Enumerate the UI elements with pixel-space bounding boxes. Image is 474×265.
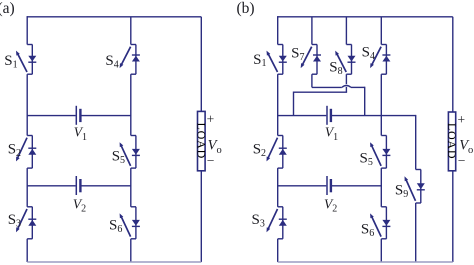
svg-text:V1: V1 bbox=[325, 125, 338, 143]
wire S7 horizontal left part (b) bbox=[312, 86, 342, 88]
wire S4 column top (b) bbox=[380, 17, 382, 45]
wire S7 wire drop to V1 row (b) bbox=[364, 87, 366, 116]
wire left column S2-S3 (a) bbox=[26, 168, 28, 207]
svg-text:+: + bbox=[207, 111, 215, 126]
wire load column bottom (b) bbox=[452, 171, 454, 262]
battery V2 (b) bbox=[327, 176, 331, 195]
load LOAD (b) bbox=[445, 112, 459, 171]
switch S4 (b) bbox=[370, 45, 390, 75]
wire V1 row left segment (a) bbox=[27, 115, 75, 117]
switch S3 (b) bbox=[267, 207, 287, 239]
svg-text:+: + bbox=[458, 112, 466, 127]
load LOAD (a) bbox=[194, 111, 208, 170]
wire S5-S6 column (b) bbox=[380, 168, 382, 207]
svg-text:S7: S7 bbox=[291, 46, 304, 63]
wire S8 column top (b) bbox=[345, 17, 347, 45]
svg-text:−: − bbox=[458, 153, 466, 168]
wire right column top (a) bbox=[130, 17, 132, 45]
svg-text:S2: S2 bbox=[253, 142, 266, 159]
svg-text:S9: S9 bbox=[395, 183, 408, 200]
wire bottom rail (b) bbox=[278, 261, 453, 263]
wire bottom rail (a) bbox=[27, 261, 201, 263]
switch S2 bbox=[16, 136, 36, 169]
wire left column S1-S2 (b) bbox=[277, 74, 279, 135]
wire right column S5-S6 (a) bbox=[130, 168, 132, 207]
wire top rail (a) bbox=[27, 16, 201, 18]
switch S1 bbox=[16, 45, 36, 75]
wire V2 row right segment (a) bbox=[82, 185, 131, 187]
wire V1 row right segment (b) bbox=[332, 115, 416, 117]
wire S6 column bottom (b) bbox=[380, 239, 382, 262]
switch S3 bbox=[16, 207, 36, 239]
svg-text:S2: S2 bbox=[8, 142, 21, 159]
wire V2 row left segment (b) bbox=[278, 185, 327, 187]
wire load column top (b) bbox=[452, 17, 454, 112]
switch S1 (b) bbox=[267, 45, 287, 75]
svg-text:S3: S3 bbox=[252, 212, 265, 229]
svg-text:S4: S4 bbox=[105, 53, 118, 70]
svg-text:(a): (a) bbox=[0, 0, 15, 17]
svg-text:S6: S6 bbox=[109, 218, 122, 235]
wire S9 column bottom (b) bbox=[415, 203, 417, 262]
battery V1 (b) bbox=[327, 106, 331, 125]
battery V1 (a) bbox=[76, 106, 80, 125]
wire load column bottom (a) bbox=[200, 171, 202, 262]
svg-text:S3: S3 bbox=[8, 212, 21, 229]
wire S7 drop (b) bbox=[311, 74, 313, 87]
wire S7 horizontal right part (b) bbox=[351, 86, 365, 88]
wire V1 row right segment (a) bbox=[82, 115, 131, 117]
wire S8 wire drop to V1 row (b) bbox=[293, 92, 295, 116]
wire S4 column S4-S5 (b) bbox=[380, 74, 382, 135]
wire left column top (a) bbox=[26, 16, 28, 44]
svg-text:−: − bbox=[207, 153, 215, 168]
wire right column bottom (a) bbox=[130, 239, 132, 262]
wire left column bottom (b) bbox=[277, 239, 279, 262]
svg-text:V1: V1 bbox=[74, 125, 87, 143]
crossover hop on S7 wire (b) bbox=[342, 86, 351, 88]
wire right column S4-S5 (a) bbox=[130, 74, 132, 135]
wire left column bottom (a) bbox=[26, 239, 28, 262]
switch S6 (b) bbox=[370, 207, 390, 239]
svg-text:S6: S6 bbox=[361, 222, 374, 239]
wire V2 row right segment (b) bbox=[332, 185, 381, 187]
wire V2 row left segment (a) bbox=[27, 185, 75, 187]
switch S9 bbox=[405, 170, 425, 204]
switch S2 (b) bbox=[267, 136, 287, 169]
wire S8 vertical through crossover (b) bbox=[345, 74, 347, 92]
wire S7 column top (b) bbox=[311, 17, 313, 45]
wire V1 row left segment (b) bbox=[278, 115, 327, 117]
switch S6 bbox=[120, 207, 140, 239]
wire left column top (b) bbox=[277, 16, 279, 44]
switch S8 bbox=[335, 45, 355, 75]
switch S7 bbox=[301, 45, 321, 75]
switch S4 bbox=[120, 45, 140, 75]
svg-text:S4: S4 bbox=[362, 45, 375, 62]
wire left column S1-S2 (a) bbox=[26, 74, 28, 135]
switch S5 (b) bbox=[370, 136, 390, 169]
switch S5 bbox=[120, 136, 140, 169]
svg-text:(b): (b) bbox=[237, 0, 255, 17]
svg-text:V2: V2 bbox=[324, 196, 337, 214]
svg-text:S1: S1 bbox=[253, 52, 266, 69]
svg-text:V2: V2 bbox=[73, 196, 86, 214]
battery V2 (a) bbox=[76, 176, 80, 195]
wire top rail (b) bbox=[278, 16, 453, 18]
wire S8 horizontal to left (b) bbox=[294, 91, 348, 93]
svg-text:S5: S5 bbox=[360, 151, 373, 168]
wire V1 row drop to S9 (b) bbox=[415, 115, 417, 170]
svg-text:S1: S1 bbox=[4, 53, 17, 70]
wire left column S2-S3 (b) bbox=[277, 168, 279, 207]
wire load column top (a) bbox=[200, 17, 202, 112]
